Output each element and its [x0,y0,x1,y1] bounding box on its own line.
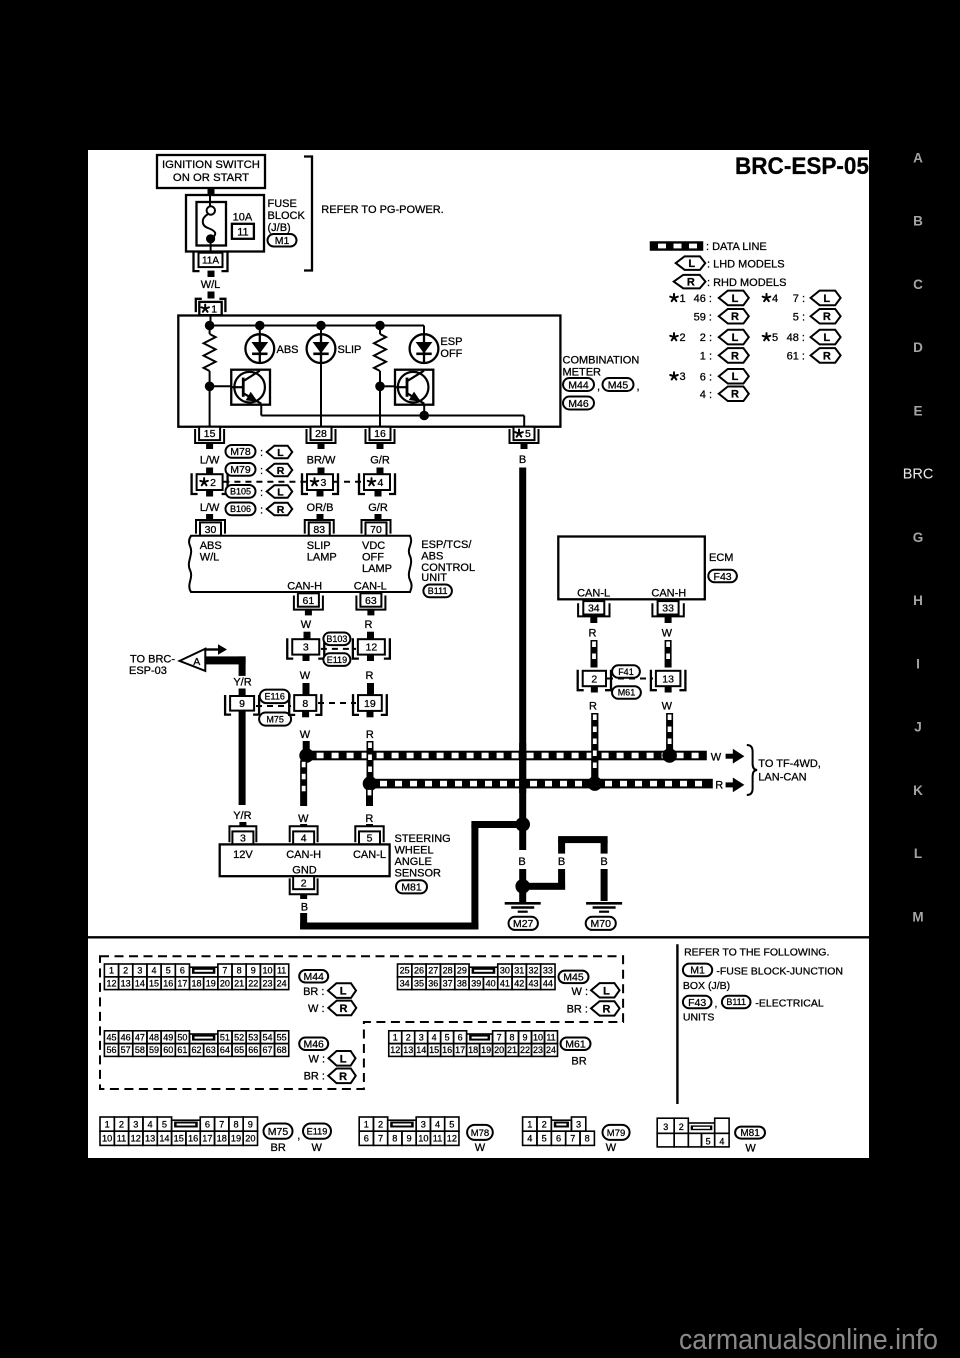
svg-text:6: 6 [458,1032,463,1042]
svg-text:2: 2 [301,877,307,889]
svg-text:L: L [732,371,739,383]
wire ignition to fuse block [208,188,215,195]
wire R connector19 down to CAN bus [367,711,374,718]
svg-text:B: B [519,454,526,466]
svg-text:5: 5 [367,833,373,845]
svg-text:57: 57 [121,1045,131,1055]
svg-text:7: 7 [219,1119,224,1129]
svg-text:5: 5 [449,1119,454,1129]
meter emitter bus wire to *5 [260,405,262,416]
connector M1 footer oval [683,964,712,977]
svg-text:A: A [193,656,200,668]
svg-text:STEERING: STEERING [395,833,451,845]
svg-text:R: R [823,311,831,323]
svg-text:ON OR START: ON OR START [173,172,249,184]
svg-text:R: R [366,670,374,682]
svg-text:B105: B105 [230,487,251,497]
svg-text:E: E [913,403,922,418]
svg-text:R: R [589,628,597,640]
svg-text:6: 6 [364,1134,369,1144]
svg-text:63: 63 [206,1045,216,1055]
svg-text:GND: GND [292,865,317,877]
wire W bus down to sensor pin 4 [300,760,307,806]
svg-text:41: 41 [500,978,510,988]
svg-text:2: 2 [406,1032,411,1042]
svg-text:30: 30 [500,966,510,976]
svg-text:62: 62 [192,1045,202,1055]
svg-text:14: 14 [416,1045,426,1055]
svg-text:M79: M79 [230,464,251,476]
svg-text:15: 15 [149,978,159,988]
svg-text:R: R [823,350,831,362]
svg-text:9: 9 [407,1134,412,1144]
svg-text:4: 4 [148,1119,153,1129]
svg-text:59: 59 [149,1045,159,1055]
svg-text::: : [260,505,263,517]
svg-text:REFER TO PG-POWER.: REFER TO PG-POWER. [321,204,443,216]
wire BR/W pin28 to *3 [318,442,325,449]
legend star table [673,294,675,298]
svg-text:W: W [312,1142,323,1154]
meter pin 16 [366,429,395,443]
svg-text:61: 61 [303,595,315,607]
svg-text:ABS: ABS [277,344,299,356]
svg-text:M81: M81 [401,882,422,894]
svg-text:M1: M1 [690,965,705,977]
node junction R bus at ECM [588,776,603,791]
svg-text:R: R [715,780,723,792]
svg-text:9: 9 [251,966,256,976]
svg-text:3: 3 [663,1122,668,1132]
svg-text:W: W [745,1143,756,1155]
LED indicator ESP OFF [423,326,425,335]
svg-text:L: L [823,293,830,305]
sensor pin 2 GND [290,878,318,894]
svg-text:1: 1 [393,1032,398,1042]
svg-text:53: 53 [248,1032,258,1042]
control unit pin 61 [294,596,323,610]
connector *2 [197,474,223,490]
svg-text:5: 5 [162,1119,167,1129]
svg-text:R: R [366,729,374,741]
svg-text:R: R [365,619,373,631]
svg-text:B: B [558,856,565,868]
svg-text:2: 2 [679,1122,684,1132]
connector 3 (B103/E119) [292,639,319,654]
svg-text:4: 4 [152,966,157,976]
svg-text:1: 1 [211,303,217,315]
svg-text:35: 35 [414,978,424,988]
svg-text:M44: M44 [568,379,589,391]
connector table M75 E119 [100,1117,114,1131]
svg-text:10: 10 [418,1134,428,1144]
svg-text:10: 10 [102,1134,112,1144]
ESP/TCS/ABS control unit box B111 [189,536,412,592]
wire W connector8 down to CAN bus [302,711,309,718]
svg-text:11: 11 [433,1134,443,1144]
svg-text:W: W [298,813,309,825]
svg-text:70: 70 [370,524,382,536]
svg-text:37: 37 [443,978,453,988]
ground M27 [505,902,541,905]
svg-text::: : [260,487,263,499]
svg-text:,: , [297,1130,300,1142]
svg-text:W :: W : [572,986,589,998]
svg-text:I: I [916,656,920,671]
svg-text:LAMP: LAMP [362,563,392,575]
svg-text:55: 55 [277,1032,287,1042]
svg-text:29: 29 [457,966,467,976]
sensor pin 3 [229,826,256,842]
svg-text:W: W [475,1142,486,1154]
connector *1 [196,299,202,312]
svg-text:F41: F41 [618,667,634,677]
svg-text:67: 67 [262,1045,272,1055]
svg-text:11: 11 [546,1032,555,1042]
svg-text:47: 47 [135,1032,145,1042]
svg-text:C: C [913,277,923,292]
svg-text:11A: 11A [202,256,219,267]
svg-text:,: , [715,998,718,1010]
svg-text:17: 17 [177,978,187,988]
control unit pin 63 [356,596,385,610]
svg-text:20: 20 [245,1134,255,1144]
control unit pin 30 [196,520,225,534]
svg-text:R: R [602,1003,610,1015]
svg-text:WHEEL: WHEEL [395,845,434,857]
wire thick from arrow A to pin 9 [205,656,245,664]
control unit pin 70 [362,520,391,534]
svg-text:ABS: ABS [421,551,443,563]
svg-text:3: 3 [576,1119,581,1129]
svg-text:19: 19 [206,978,216,988]
fuse 10A #11 [197,202,227,246]
svg-text:44: 44 [543,978,553,988]
svg-text:M61: M61 [565,1039,586,1051]
svg-text:E119: E119 [307,1126,328,1136]
svg-text:M78: M78 [230,446,251,458]
wire Y/R connector9 down to sensor pin 3 [239,711,246,718]
svg-text:M61: M61 [618,688,636,698]
svg-text:ESP/TCS/: ESP/TCS/ [421,539,472,551]
wire SLIP lamp to pin 28 [320,362,322,426]
ignition switch box [157,155,265,188]
svg-text:B: B [518,856,525,868]
wire B crossing buses solid [519,743,526,793]
svg-text:16: 16 [188,1134,198,1144]
svg-text::: : [260,465,263,477]
wire R connector2 down to CAN bus [591,686,598,692]
svg-text:SENSOR: SENSOR [395,868,442,880]
svg-text:G/R: G/R [368,502,388,514]
svg-text:-FUSE BLOCK-JUNCTION: -FUSE BLOCK-JUNCTION [716,966,843,978]
svg-text:M78: M78 [471,1128,489,1139]
curly brace TO TF-4WD LAN-CAN [747,745,757,795]
svg-text:11: 11 [277,966,286,976]
svg-text:carmanualsonline.info: carmanualsonline.info [679,1324,938,1356]
svg-text:12: 12 [447,1134,457,1144]
dashed link 2 to 13 [607,678,653,680]
svg-text:M46: M46 [303,1039,324,1051]
ECM box F43 [558,537,705,600]
svg-text:B111: B111 [726,997,746,1007]
svg-text:L/W: L/W [200,502,220,514]
svg-text:BOX (J/B): BOX (J/B) [683,980,730,992]
ECM pin 33 [652,603,683,616]
svg-text:M: M [912,909,923,924]
svg-text:2: 2 [542,1119,547,1129]
legend LHD hexagon [676,256,706,270]
dashed link 9 to 8 [256,705,291,707]
svg-text:5: 5 [525,428,531,440]
svg-text:ABS: ABS [200,540,222,552]
meter internal top bus wire [209,325,424,327]
svg-text:CAN-L: CAN-L [353,849,386,861]
svg-text:CAN-H: CAN-H [651,588,686,600]
svg-text:M45: M45 [563,972,584,984]
svg-text:L: L [732,293,739,305]
resistor left (ABS lamp driver) [209,326,211,335]
svg-text:51: 51 [220,1032,230,1042]
svg-text:34: 34 [588,603,600,615]
svg-text:W :: W : [309,1054,326,1066]
svg-text:BR: BR [571,1056,586,1068]
svg-text:: LHD MODELS: : LHD MODELS [707,259,785,271]
svg-text:6: 6 [556,1134,561,1144]
svg-text:M79: M79 [607,1128,625,1139]
wire R bus down to sensor pin 5 [366,788,373,806]
svg-text:L: L [688,258,695,270]
svg-text:BRC-ESP-05: BRC-ESP-05 [735,153,869,180]
svg-text:ESP: ESP [440,336,462,348]
svg-text:48 :: 48 : [787,332,805,344]
wire W pin61 to connector 3 [305,609,312,616]
svg-text:49: 49 [163,1032,173,1042]
svg-text:FUSE: FUSE [268,198,297,210]
sensor pin 4 [290,826,318,842]
svg-text:2: 2 [680,332,686,344]
svg-text:19: 19 [481,1045,491,1055]
svg-text:8: 8 [302,698,308,710]
steering wheel angle sensor box M81 [220,844,390,876]
svg-text:LAMP: LAMP [307,552,337,564]
svg-text:CAN-H: CAN-H [286,849,321,861]
svg-text:6 :: 6 : [700,371,712,383]
svg-text:58: 58 [135,1045,145,1055]
svg-text:46 :: 46 : [694,293,712,305]
svg-text:BR/W: BR/W [307,455,336,467]
svg-text:4: 4 [378,477,384,489]
LED indicator ABS [259,326,261,335]
svg-text:17: 17 [455,1045,465,1055]
svg-text:66: 66 [248,1045,258,1055]
svg-text:1: 1 [109,966,114,976]
connector table M78 [359,1117,373,1131]
svg-text:L: L [603,985,610,997]
wire W connector13 down to CAN bus [665,686,672,692]
svg-text:61: 61 [177,1045,187,1055]
svg-text:7 :: 7 : [793,293,805,305]
svg-text:B106: B106 [230,504,251,514]
svg-text:48: 48 [149,1032,159,1042]
connector M78 M79 legend row [226,445,256,458]
svg-text:B: B [301,902,308,914]
svg-text:COMBINATION: COMBINATION [563,355,640,367]
meter pin 15 [195,429,224,443]
svg-text:M27: M27 [513,918,534,930]
svg-text:18: 18 [468,1045,478,1055]
svg-text:27: 27 [428,966,438,976]
svg-text:A: A [913,150,923,165]
svg-text:18: 18 [192,978,202,988]
svg-text:13: 13 [145,1134,155,1144]
svg-text:28: 28 [443,966,453,976]
svg-text:4: 4 [301,833,307,845]
svg-text:9: 9 [239,698,245,710]
svg-text:38: 38 [457,978,467,988]
svg-text::: : [260,447,263,459]
wire L/W pin15 to *2 [206,442,213,449]
svg-text:ANGLE: ANGLE [395,856,432,868]
svg-text:W: W [300,670,311,682]
svg-text:L: L [340,986,347,998]
svg-text:R: R [339,1071,347,1083]
CAN-L data bus R [370,779,713,789]
svg-text:CAN-L: CAN-L [354,581,387,593]
connector table M79 [523,1117,537,1131]
connector 11A [199,253,223,267]
svg-text:W :: W : [308,1003,325,1015]
transistor ESP OFF lamp driver [380,385,395,387]
svg-text:3: 3 [680,371,686,383]
CAN-H data bus W [307,751,707,761]
svg-text:CAN-L: CAN-L [577,588,610,600]
svg-text:3: 3 [133,1119,138,1129]
node junction B wire [515,817,530,832]
connector 19 [358,695,382,711]
svg-text:21: 21 [507,1045,517,1055]
svg-text:22: 22 [520,1045,530,1055]
svg-text:61 :: 61 : [787,350,805,362]
svg-text:L: L [340,1053,347,1065]
svg-text:METER: METER [563,367,602,379]
svg-text:1: 1 [105,1119,110,1129]
connector table M45 [398,964,412,977]
svg-text:W: W [662,628,673,640]
fuse block J/B box M1 [186,195,264,252]
svg-text:45: 45 [106,1032,116,1042]
ECM pin 34 [578,603,609,616]
svg-text:B: B [913,214,923,229]
svg-text:9: 9 [523,1032,528,1042]
svg-text:Y/R: Y/R [233,810,251,822]
svg-text:G: G [913,530,924,545]
svg-text:43: 43 [529,978,539,988]
svg-text:54: 54 [262,1032,272,1042]
combination meter box M44 M45 M46 [178,316,560,427]
svg-text:64: 64 [220,1045,230,1055]
svg-text:R: R [365,813,373,825]
svg-text:42: 42 [514,978,524,988]
svg-text:J: J [914,720,922,735]
svg-text:3: 3 [321,477,327,489]
svg-text:15: 15 [204,428,216,440]
connector 9 (E116/M75) [230,696,254,711]
svg-text:2: 2 [378,1119,383,1129]
svg-text:59 :: 59 : [694,311,712,323]
svg-text:(J/B): (J/B) [268,222,291,234]
svg-text:E116: E116 [265,692,285,702]
svg-text:7: 7 [570,1134,575,1144]
svg-text:18: 18 [217,1134,227,1144]
svg-text:R: R [589,701,597,713]
svg-text:SLIP: SLIP [338,344,362,356]
svg-text:6: 6 [205,1119,210,1129]
svg-text:3: 3 [240,833,246,845]
svg-text:M70: M70 [591,918,612,930]
svg-text:4: 4 [527,1134,532,1144]
svg-text:L: L [732,332,739,344]
svg-text:H: H [913,593,923,608]
svg-text:4: 4 [719,1137,724,1147]
svg-text:B103: B103 [326,634,347,644]
refer-to divider line [676,944,678,1104]
svg-text:11: 11 [117,1134,127,1144]
svg-text:12: 12 [106,978,116,988]
svg-text:13: 13 [403,1045,413,1055]
svg-text:33: 33 [662,603,674,615]
connector M1 oval [268,234,297,247]
node junction R bus left [363,776,378,791]
node base junction dot [205,382,215,392]
svg-text:OFF: OFF [440,348,462,360]
svg-text:2: 2 [123,966,128,976]
svg-text:15: 15 [174,1134,184,1144]
svg-text:52: 52 [234,1032,244,1042]
LED indicator SLIP [320,326,322,335]
svg-text:5: 5 [445,1032,450,1042]
connector F43 B111 footer ovals [683,996,712,1009]
svg-text:M46: M46 [568,398,589,410]
svg-text:8: 8 [510,1032,515,1042]
svg-text:2 :: 2 : [700,332,712,344]
svg-text:4: 4 [772,293,778,305]
svg-text:21: 21 [234,978,244,988]
svg-text:W: W [711,751,722,763]
svg-text:5: 5 [166,966,171,976]
svg-text:34: 34 [400,978,410,988]
svg-text:W/L: W/L [200,552,220,564]
connector F43 oval [708,570,737,583]
svg-text:4 :: 4 : [700,389,712,401]
svg-text:50: 50 [177,1032,187,1042]
svg-text:39: 39 [471,978,481,988]
node junction W bus at ECM [662,748,677,763]
svg-text:10: 10 [533,1032,543,1042]
svg-text:3: 3 [419,1032,424,1042]
svg-text:M75: M75 [268,1126,289,1138]
svg-text:9: 9 [248,1119,253,1129]
svg-text:6: 6 [180,966,185,976]
connector M81 oval [396,880,427,893]
svg-text:8: 8 [237,966,242,976]
svg-text:R: R [731,311,739,323]
svg-text:22: 22 [248,978,258,988]
node junction W bus left [299,748,314,763]
svg-text:BR :: BR : [304,1071,325,1083]
svg-text:L/W: L/W [200,455,220,467]
svg-text:7: 7 [497,1032,502,1042]
